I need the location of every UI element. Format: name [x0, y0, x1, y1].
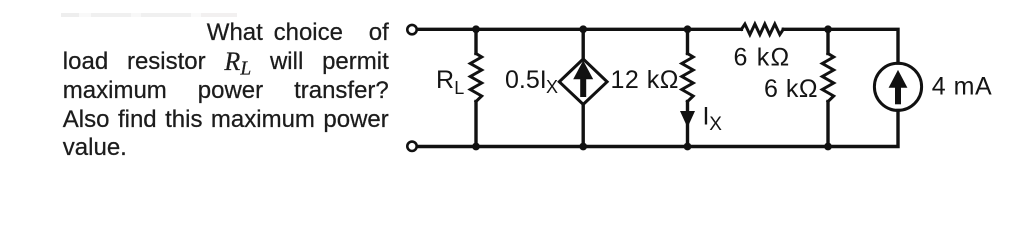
- svg-text:6 kΩ: 6 kΩ: [764, 75, 818, 103]
- resistor 6k vertical branch wires: [826, 29, 829, 53]
- svg-text:X: X: [546, 77, 558, 97]
- svg-text:12 kΩ: 12 kΩ: [611, 66, 679, 94]
- svg-text:0.5I: 0.5I: [505, 66, 547, 94]
- wire top rail right + down to 4mA source: [783, 29, 898, 63]
- faint scan artifact top-left: [61, 13, 237, 17]
- svg-text:4 mA: 4 mA: [932, 72, 992, 100]
- resistor RL branch wires: [474, 29, 477, 53]
- problem statement paragraph: [63, 19, 389, 163]
- terminal (top-left open circle): [407, 25, 416, 34]
- dependent current source 0.5Ix diamond: [559, 59, 607, 104]
- resistor 6k vertical zigzag: [822, 54, 833, 102]
- junction node dots: [472, 25, 480, 33]
- current source 4 mA circle: [874, 63, 921, 110]
- current arrow Ix (down) on wire: [680, 111, 695, 128]
- resistor 12k zigzag: [682, 54, 693, 102]
- resistor 6 kOhm horizontal zigzag: [741, 24, 783, 35]
- resistor 12k branch wires: [686, 29, 689, 53]
- resistor RL zigzag: [470, 54, 481, 102]
- svg-text:L: L: [454, 78, 464, 98]
- 4 mA source arrow: [889, 70, 908, 88]
- wire top rail (terminal to 6k resistor): [417, 28, 741, 31]
- dependent source branch wires: [582, 29, 585, 59]
- svg-text:6 kΩ: 6 kΩ: [734, 43, 791, 71]
- terminal (bottom-left open circle): [407, 142, 416, 151]
- svg-text:X: X: [709, 114, 722, 135]
- svg-text:R: R: [436, 66, 454, 94]
- dependent source arrow: [573, 61, 593, 80]
- wire bottom rail: [417, 111, 898, 147]
